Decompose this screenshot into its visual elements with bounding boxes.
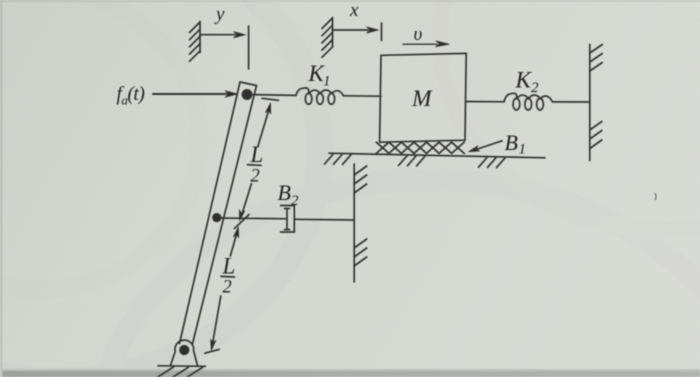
svg-text:2: 2 (251, 167, 260, 187)
lever bar (240, 82, 257, 86)
mid lever pin (213, 214, 221, 222)
reference tick for y (248, 26, 250, 69)
damper rod right (294, 218, 354, 221)
damper B2 rod left (220, 217, 287, 220)
wall for damper B2 (353, 164, 355, 282)
bottom oblique tick (205, 349, 219, 353)
mass M box (380, 53, 467, 142)
reference tick for x (381, 23, 383, 41)
svg-text:B: B (278, 180, 291, 205)
right wall (589, 45, 591, 161)
wire lever to K1 (250, 94, 296, 97)
ground line under support (158, 365, 206, 368)
wall anchor for x reference (332, 18, 334, 48)
arrow v (403, 43, 437, 45)
arrow x (333, 29, 369, 31)
svg-text:L: L (250, 142, 264, 167)
arrow y (200, 34, 235, 36)
svg-text:2: 2 (531, 80, 539, 96)
svg-text:1: 1 (519, 142, 527, 158)
dimension line lower L/2 (230, 234, 236, 256)
pivot dot top of lever (242, 90, 251, 99)
wire K1 to mass (344, 95, 382, 97)
support at lever base (171, 340, 198, 365)
svg-text:M: M (411, 86, 433, 112)
svg-text:2: 2 (223, 278, 232, 298)
damper B2 piston (286, 209, 288, 230)
svg-text:υ: υ (414, 24, 423, 45)
mid oblique tick (235, 215, 250, 229)
svg-text:y: y (214, 4, 225, 25)
svg-text:x: x (349, 0, 359, 21)
svg-text:fa(t): fa(t) (117, 84, 145, 108)
dimension tick top (at lever top) (262, 98, 279, 100)
pivot pin (180, 346, 189, 355)
ground line under mass (329, 153, 545, 158)
damper B2 cylinder (281, 206, 295, 233)
spring K1 (296, 88, 309, 96)
svg-text:B: B (505, 130, 518, 155)
wire mass to K2 (466, 101, 504, 103)
small speck (655, 193, 657, 200)
wall anchor for y reference (199, 22, 201, 53)
spring K2 (504, 93, 517, 102)
svg-text:1: 1 (323, 74, 331, 90)
svg-text:K: K (515, 68, 533, 93)
friction element B1 (crosshatch) (376, 142, 464, 153)
svg-text:2: 2 (291, 193, 299, 209)
wire K2 to wall (553, 101, 591, 103)
svg-text:L: L (222, 254, 236, 279)
dimension line upper L/2 (258, 110, 269, 146)
